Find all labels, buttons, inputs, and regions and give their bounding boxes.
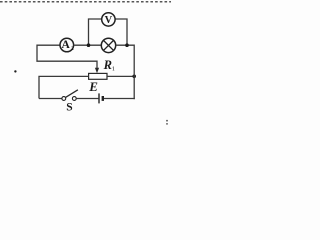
wire: main row between ammeter and lamp: [74, 44, 102, 46]
rheostat R1 body: [89, 73, 107, 79]
wire: main row left segment to ammeter: [37, 44, 60, 46]
voltmeter U2 circle: [102, 13, 115, 26]
svg-text:V: V: [105, 15, 113, 26]
switch S pivot circle left: [62, 97, 66, 101]
wire: battery to right vertical: [104, 98, 135, 100]
svg-text:S: S: [66, 101, 72, 113]
rheostat slider arrow: [95, 68, 99, 74]
wire: right vertical (lamp row to battery row): [133, 45, 135, 100]
ammeter A2 circle: [60, 38, 74, 52]
svg-text:2: 2: [71, 46, 74, 52]
dotted rule (page border): [0, 1, 171, 3]
wire: switch to battery: [76, 98, 98, 100]
switch S contact circle right: [72, 97, 76, 101]
wire: voltmeter branch left vertical + top lead: [89, 19, 102, 45]
wire: battery row left segment to switch: [39, 98, 62, 100]
svg-text:E: E: [88, 79, 98, 94]
battery E long plate: [98, 93, 100, 103]
junction node: rheostat right terminal on right vertical: [132, 75, 136, 79]
svg-text:1: 1: [112, 66, 115, 73]
wire: main row right of lamp: [116, 44, 135, 46]
wire: voltmeter top right lead + right vertical: [115, 19, 127, 45]
junction node: voltmeter left tap: [87, 43, 91, 47]
wire: rheostat right lead: [107, 75, 134, 77]
lamp L circle: [101, 38, 115, 52]
switch lever: [65, 90, 78, 98]
wire: left loop (ammeter row down and right to slider): [37, 45, 97, 69]
lamp cross stroke 2: [104, 41, 114, 51]
stray period punctuation left margin: [14, 70, 16, 72]
svg-text:R: R: [103, 58, 112, 72]
junction node: voltmeter right tap: [125, 43, 129, 47]
svg-text:A: A: [62, 39, 71, 51]
stray colon right margin: [166, 120, 168, 122]
wire: rheostat left lead, down to battery row: [39, 76, 89, 98]
battery E short plate: [102, 96, 104, 101]
lamp cross stroke 1: [104, 41, 114, 51]
